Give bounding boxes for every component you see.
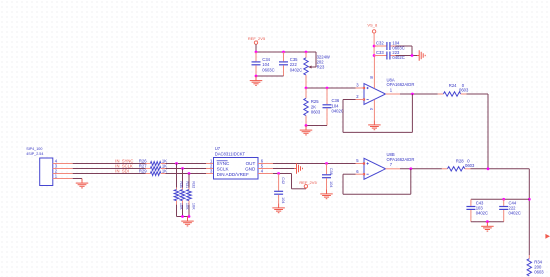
svg-text:4SIP_2.54: 4SIP_2.54 [26, 152, 43, 156]
svg-text:0402C: 0402C [392, 55, 404, 60]
svg-text:0402C: 0402C [476, 211, 488, 216]
svg-text:DIN ADD/VREF: DIN ADD/VREF [217, 172, 249, 177]
svg-text:104: 104 [262, 62, 270, 67]
svg-text:R30: R30 [179, 181, 183, 188]
svg-text:R28: R28 [456, 159, 464, 164]
svg-text:10K: 10K [179, 203, 183, 210]
svg-text:SIP4_100: SIP4_100 [26, 147, 42, 151]
svg-text:SCLK: SCLK [217, 166, 230, 171]
svg-text:REF_2V5: REF_2V5 [248, 36, 266, 41]
svg-text:104: 104 [281, 197, 285, 203]
svg-text:C35: C35 [290, 57, 298, 62]
svg-text:0402C: 0402C [509, 211, 521, 216]
svg-text:10K: 10K [185, 203, 189, 210]
svg-text:C38: C38 [329, 168, 333, 175]
svg-text:R29: R29 [139, 168, 147, 173]
svg-text:0603: 0603 [534, 270, 544, 275]
svg-text:0402C: 0402C [290, 68, 302, 73]
svg-text:C33: C33 [376, 50, 384, 55]
svg-text:C32: C32 [376, 40, 384, 45]
svg-text:222: 222 [290, 62, 298, 67]
svg-text:C34: C34 [262, 57, 270, 62]
svg-text:REF_2V5: REF_2V5 [299, 180, 317, 185]
svg-text:DAC8311IDCKT: DAC8311IDCKT [215, 151, 246, 156]
svg-text:R24: R24 [449, 83, 457, 88]
svg-text:0402C: 0402C [332, 109, 344, 114]
svg-text:0603: 0603 [311, 110, 321, 115]
svg-text:R23: R23 [317, 65, 325, 70]
svg-text:R32: R32 [191, 181, 195, 188]
svg-text:IN_SDI: IN_SDI [115, 169, 129, 174]
svg-text:10K: 10K [191, 203, 195, 210]
svg-text:0603: 0603 [459, 87, 469, 92]
svg-text:0603C: 0603C [262, 68, 274, 73]
svg-text:GND: GND [245, 166, 256, 171]
svg-text:VS_8: VS_8 [367, 23, 378, 28]
svg-text:104: 104 [329, 181, 333, 187]
svg-text:U7: U7 [215, 146, 221, 151]
svg-text:R31: R31 [185, 181, 189, 188]
svg-text:1K: 1K [162, 168, 167, 173]
svg-text:C42: C42 [281, 177, 285, 184]
svg-text:0603: 0603 [465, 163, 475, 168]
